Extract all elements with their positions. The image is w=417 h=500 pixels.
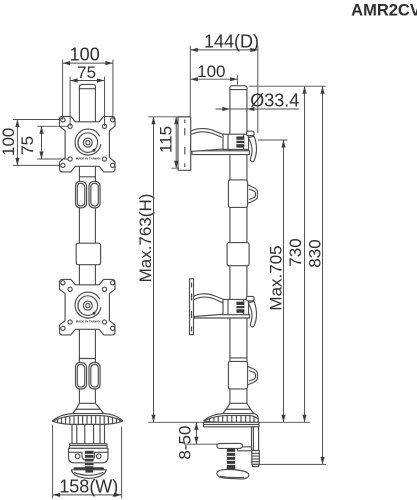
front base cap [73,409,104,413]
front clamp screw column [85,451,94,470]
dim 144(D) side: line and arrows [190,49,257,51]
side arm 2 flange bar [194,314,250,318]
svg-text:115: 115 [157,126,176,153]
front base dome [53,414,123,425]
side arm 1 clamp block [223,134,249,149]
dim 100 side: line and arrows [190,78,237,80]
dim 158(W) bottom: line and arrows [53,494,122,496]
pole top extension line [249,85,326,87]
side arm 1 handle [248,136,256,161]
side arm 1 flange bar [192,151,250,155]
dim 100 left front: line and arrows [16,120,18,166]
svg-text:AMR2CV: AMR2CV [351,2,417,20]
desk surface extension lines [148,421,310,423]
svg-text:Max.763(H): Max.763(H) [136,194,155,283]
svg-text:100: 100 [70,44,100,64]
side arm 2 clamp block [223,299,249,314]
side arm 2 handle [248,302,256,327]
svg-text:8-50: 8-50 [176,426,195,460]
side base dome [204,414,258,423]
plate 1 inner holes [68,124,72,128]
side clamp top plate [204,422,260,427]
svg-text:Ø33.4: Ø33.4 [250,90,299,110]
dim 100 left front: extension lines [13,120,60,166]
side clamp pressure disc [217,443,242,448]
side clamp knob stem [227,466,235,471]
side clamp adjuster block [252,451,259,465]
side arm 2 wedge [194,294,228,317]
front base flare [76,403,100,409]
side pole [230,90,247,404]
dim 75 left front: line and arrows [41,126,43,159]
front clamp band [70,444,108,449]
side dome rim line [206,416,258,421]
dim 830: line and arrows [322,86,324,464]
side cable clip knob 2 [228,361,257,389]
VESA plate 2 [60,279,116,335]
front cable clip pair 1 right pill [89,181,100,208]
side pole top cap [230,86,247,90]
svg-text:75: 75 [18,136,37,155]
dim 75 top front: extension lines [70,77,104,126]
side clamp back bar [252,427,259,451]
front pole top cap [79,84,95,88]
svg-text:MADE IN TAIWAN: MADE IN TAIWAN [76,157,101,161]
svg-text:144(D): 144(D) [204,31,259,51]
svg-text:MADE IN TAIWAN: MADE IN TAIWAN [76,320,101,324]
dim dia 33.4: line and arrows [216,108,300,110]
dim max763(H): line and arrows [153,117,155,423]
dim max705: line and arrows [283,140,285,422]
front pole collar [76,243,100,265]
dim 158(W) bottom: extension lines [53,425,122,499]
front cable clip pair 1 left pill [76,181,87,208]
side base cap [223,409,254,413]
plate 1 center hub [75,129,101,155]
svg-text:730: 730 [286,238,305,266]
side clamp mid arm [238,447,252,451]
plate 2 inner holes [68,287,72,291]
front clamp knob top band [74,467,105,470]
dim 100 side: extension tick at pole centre [237,75,239,84]
side pole joint line [230,357,247,359]
side cable clip knob 1 [228,180,257,208]
plate 2 center hub [75,292,101,318]
dim 8-50: bottom extension line [184,443,217,445]
side clamp knob [217,469,249,478]
side clamp screw shaft [227,448,235,469]
side arm 1 top bump [246,131,254,135]
front clamp housing [72,424,105,443]
front pole joint lines [79,177,95,359]
svg-text:100: 100 [0,128,18,156]
front dome ribs [58,416,120,425]
dim 730: line and arrows [304,86,306,422]
svg-text:75: 75 [77,63,96,82]
side arm 1 vesa plate tilted [178,117,191,171]
dim 115 side: extension lines [148,117,190,168]
svg-text:158(W): 158(W) [59,477,118,497]
front clamp bracket screw heads [75,454,80,459]
side arm 2 vesa plate edge-on [190,279,194,335]
dim 144(D) side: extension lines [190,46,257,133]
plate 2 outer holes [61,281,65,285]
dim 100 top front: line and arrows [63,62,113,64]
front cable clip pair 2 left pill [76,363,87,390]
side pole collar [227,243,249,266]
dim 75 top front: line and arrows [70,80,104,82]
front clamp bracket [69,448,109,463]
dim 8-50: line and arrows [195,422,197,444]
front clamp knob body [71,470,106,479]
svg-text:830: 830 [305,239,324,267]
dim 75 left front: extension lines [37,126,67,159]
side arm 1 wedge [191,129,227,152]
svg-text:Max.705: Max.705 [267,245,286,310]
dim 100 top front: extension lines [63,60,113,120]
plate 1 outer holes [61,118,65,122]
front pole [79,89,95,404]
VESA plate 1 [60,116,116,171]
side base flare [226,403,250,409]
front cable clip pair 2 right pill [89,363,100,390]
front dome rim line [54,416,122,421]
dim max705: top extension line [258,139,288,141]
dim 830: bottom extension line [260,463,327,465]
side arm 2 top bump [246,296,254,300]
svg-text:100: 100 [197,62,225,81]
dim 115 side: line and arrows [175,117,177,168]
side dome ribs [210,416,255,423]
